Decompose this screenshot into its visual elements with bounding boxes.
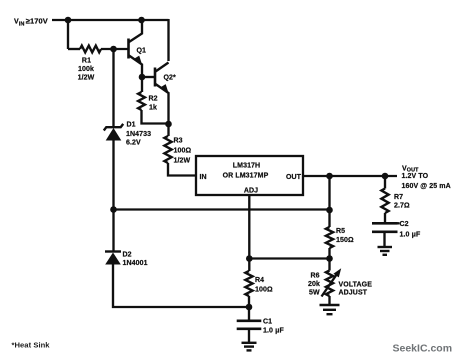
node junction R5/R6/ADJ line bbox=[326, 255, 333, 262]
svg-text:*Heat Sink: *Heat Sink bbox=[12, 340, 51, 349]
wire R7 top lead bbox=[384, 176, 386, 189]
diode D1 triangle bbox=[106, 128, 122, 141]
transistor Q2 emitter arrowhead bbox=[161, 84, 169, 95]
svg-text:100k: 100k bbox=[78, 66, 94, 73]
svg-text:100Ω: 100Ω bbox=[174, 148, 192, 155]
diode D2 triangle bbox=[105, 253, 121, 265]
wire C1 bottom lead bbox=[248, 329, 250, 342]
svg-text:5W: 5W bbox=[309, 290, 320, 297]
wire D2 bottom lead and bottom rail bbox=[113, 264, 249, 307]
svg-text:SeekIC.com: SeekIC.com bbox=[393, 343, 453, 355]
svg-text:2.7Ω: 2.7Ω bbox=[394, 203, 410, 210]
svg-text:100Ω: 100Ω bbox=[255, 287, 273, 294]
diode D2 cathode bar bbox=[105, 250, 121, 252]
wire top rail from VIN bbox=[52, 19, 169, 21]
wire R6 top lead bbox=[328, 259, 330, 271]
node junction top-rail/Q1 collector bbox=[138, 17, 145, 24]
svg-text:ADJ: ADJ bbox=[244, 188, 258, 195]
svg-text:1/2W: 1/2W bbox=[78, 75, 95, 82]
svg-text:R7: R7 bbox=[394, 194, 403, 201]
wire D2 top lead bbox=[112, 210, 114, 251]
svg-text:LM317H: LM317H bbox=[233, 163, 260, 170]
svg-text:R2: R2 bbox=[149, 96, 158, 103]
node junction VOUT-line/R5 bbox=[326, 207, 333, 214]
svg-text:IN: IN bbox=[200, 174, 207, 181]
wire C2 bottom lead bbox=[383, 232, 385, 246]
capacitor C1 top plate bbox=[237, 319, 262, 322]
svg-text:D2: D2 bbox=[123, 252, 132, 259]
svg-text:1.2V TO: 1.2V TO bbox=[402, 173, 429, 180]
op-amp U1 LM317 regulator box bbox=[196, 156, 303, 195]
wire R2 bottom lead bbox=[142, 110, 169, 124]
node junction Q2 emitter/R2/R3 bbox=[165, 121, 172, 128]
transistor Q1 base bar bbox=[127, 39, 130, 59]
ground below R6 bbox=[320, 305, 340, 314]
node junction top-rail/R1 drop bbox=[65, 17, 72, 24]
resistor R2 zigzag bbox=[138, 92, 145, 110]
wire R5 bottom lead bbox=[328, 248, 330, 259]
node junction OUT/R7 drop bbox=[382, 173, 389, 180]
svg-text:R4: R4 bbox=[255, 277, 264, 284]
potentiometer R6 wiper arrowhead bbox=[333, 268, 341, 277]
svg-text:D1: D1 bbox=[127, 122, 136, 129]
wire R6 bottom lead bbox=[328, 296, 330, 304]
svg-text:R3: R3 bbox=[174, 138, 183, 145]
svg-text:VOLTAGE: VOLTAGE bbox=[339, 282, 373, 289]
resistor R5 zigzag bbox=[326, 227, 333, 248]
diode D1 zener cathode bar bbox=[104, 124, 123, 131]
wire R7 bottom lead bbox=[384, 213, 386, 223]
wire OUT drop to R5 bbox=[328, 176, 330, 227]
transistor Q2 base bar bbox=[154, 68, 157, 87]
resistor R1 zigzag bbox=[80, 46, 101, 53]
wire ADJ node horizontal bbox=[249, 257, 329, 259]
node junction R4/C1/bottom rail bbox=[246, 304, 253, 311]
svg-text:20k: 20k bbox=[308, 281, 320, 288]
transistor Q1 emitter lead bbox=[129, 56, 142, 78]
resistor R4 zigzag bbox=[245, 271, 252, 296]
svg-text:Q2*: Q2* bbox=[164, 75, 177, 82]
svg-text:6.2V: 6.2V bbox=[126, 140, 141, 147]
wire R3 top lead bbox=[167, 124, 169, 136]
node junction Q1 emitter/Q2 base/R2 bbox=[139, 74, 146, 81]
node junction D1-D2 column / VOUT line bbox=[110, 206, 117, 213]
wire R4 top lead bbox=[248, 259, 250, 272]
wire R2 top lead bbox=[141, 77, 143, 92]
resistor R6 potentiometer zigzag bbox=[326, 271, 333, 297]
capacitor C2 bottom plate bbox=[372, 231, 398, 234]
transistor Q1 emitter arrowhead bbox=[135, 56, 143, 67]
resistor R7 zigzag bbox=[381, 189, 388, 214]
wire C2 tick to label bbox=[398, 222, 400, 224]
svg-text:ADJUST: ADJUST bbox=[339, 290, 368, 297]
resistor R3 zigzag bbox=[164, 136, 171, 163]
svg-text:1.0 μF: 1.0 μF bbox=[263, 328, 284, 335]
wire R4 bottom lead bbox=[248, 296, 250, 320]
capacitor C2 top plate bbox=[372, 222, 398, 225]
ground below C1 bbox=[242, 343, 257, 351]
svg-text:OR LM317MP: OR LM317MP bbox=[223, 173, 269, 180]
transistor Q1 collector lead bbox=[129, 20, 142, 42]
capacitor C1 bottom plate bbox=[237, 327, 262, 330]
svg-text:C1: C1 bbox=[263, 319, 272, 326]
svg-text:1/2W: 1/2W bbox=[174, 158, 191, 165]
wire ADJ pin down bbox=[248, 196, 250, 259]
svg-text:R5: R5 bbox=[336, 228, 345, 235]
wire horizontal VOUT-to-diode line bbox=[114, 208, 330, 210]
ground below C2 bbox=[378, 247, 393, 255]
svg-text:150Ω: 150Ω bbox=[336, 237, 354, 244]
svg-text:OUT: OUT bbox=[286, 174, 302, 181]
node junction R1/D1 column bbox=[110, 46, 117, 53]
wire drop from top rail to R1 row bbox=[67, 20, 69, 49]
svg-text:1N4001: 1N4001 bbox=[123, 260, 148, 267]
svg-text:1N4733: 1N4733 bbox=[126, 131, 151, 138]
svg-text:1k: 1k bbox=[149, 105, 157, 112]
node junction OUT/R5 drop bbox=[326, 173, 333, 180]
svg-text:Q1: Q1 bbox=[137, 48, 147, 55]
transistor Q2 collector lead bbox=[156, 63, 169, 72]
svg-text:160V @ 25 mA: 160V @ 25 mA bbox=[402, 183, 451, 190]
wire Q2 collector riser (top rail corner down) bbox=[167, 19, 169, 61]
wire Q2 base bbox=[142, 76, 154, 78]
wire OUT to VOUT bbox=[303, 175, 397, 177]
transistor Q2 emitter lead bbox=[156, 84, 169, 124]
wire D1 column upper bbox=[112, 49, 114, 126]
wire D1 column lower bbox=[112, 140, 114, 210]
potentiometer R6 wiper arrow bbox=[322, 273, 339, 297]
svg-text:C2: C2 bbox=[400, 221, 409, 228]
wire R1 to Q1 base bbox=[101, 48, 128, 50]
svg-text:R6: R6 bbox=[311, 273, 320, 280]
wire R1 left lead bbox=[68, 48, 80, 50]
wire R3 bottom lead to IN pin bbox=[168, 163, 196, 176]
svg-text:R1: R1 bbox=[82, 58, 91, 65]
node junction ADJ/R4 bbox=[246, 255, 253, 262]
svg-text:1.0 μF: 1.0 μF bbox=[400, 232, 421, 239]
